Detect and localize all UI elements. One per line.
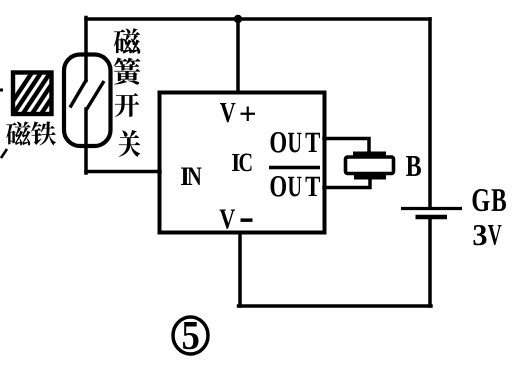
label V- xyxy=(219,210,252,229)
label CJK cí (magnetic) of reed switch caption xyxy=(114,28,140,54)
label B (buzzer) xyxy=(406,156,421,176)
wire reed bottom lead xyxy=(84,109,88,173)
label 3V xyxy=(474,225,502,245)
battery GB negative plate xyxy=(416,215,448,220)
label OUT (pin) xyxy=(271,132,320,153)
wire OUT-bar stub xyxy=(324,178,370,188)
label CJK cí of magnet caption xyxy=(6,121,31,145)
buzzer B element body xyxy=(346,157,394,174)
node junction dot xyxy=(234,15,242,23)
figure number circle 5 xyxy=(173,317,208,354)
scan speck xyxy=(0,89,3,92)
wire reed top lead xyxy=(84,18,88,81)
label CJK kāi (open) of reed switch caption xyxy=(115,93,139,117)
scan speck xyxy=(1,149,7,158)
wire OUT stub xyxy=(324,139,369,154)
label OUT-bar (pin) xyxy=(271,176,320,197)
label OUT-bar overline xyxy=(269,166,320,170)
buzzer B element bottom plate xyxy=(354,174,386,180)
buzzer B element top plate xyxy=(353,152,386,158)
label CJK guān (close) of reed switch caption xyxy=(119,130,141,157)
battery GB positive plate xyxy=(401,207,462,210)
reed switch contact blade 2 xyxy=(87,81,105,110)
label V+ xyxy=(220,103,255,122)
label CJK tiě (iron) of magnet caption xyxy=(31,121,56,145)
wire top rail xyxy=(86,17,430,21)
reed switch glass envelope xyxy=(64,55,111,147)
label IN (pin) xyxy=(181,167,202,185)
label IC xyxy=(232,153,252,171)
wire V- lead xyxy=(238,233,242,306)
magnet hatched block xyxy=(1,62,84,134)
wire IN lead xyxy=(86,170,160,174)
wire battery - to bottom rail xyxy=(428,219,432,306)
wire V+ lead xyxy=(236,19,240,92)
IC U1 box xyxy=(160,93,325,233)
label CJK huáng (reed) of reed switch caption xyxy=(114,58,141,85)
wire bottom rail xyxy=(239,304,432,308)
reed switch contact blade 1 xyxy=(70,80,87,108)
label GB (battery) xyxy=(473,189,506,211)
wire right vertical to battery + xyxy=(428,19,432,207)
